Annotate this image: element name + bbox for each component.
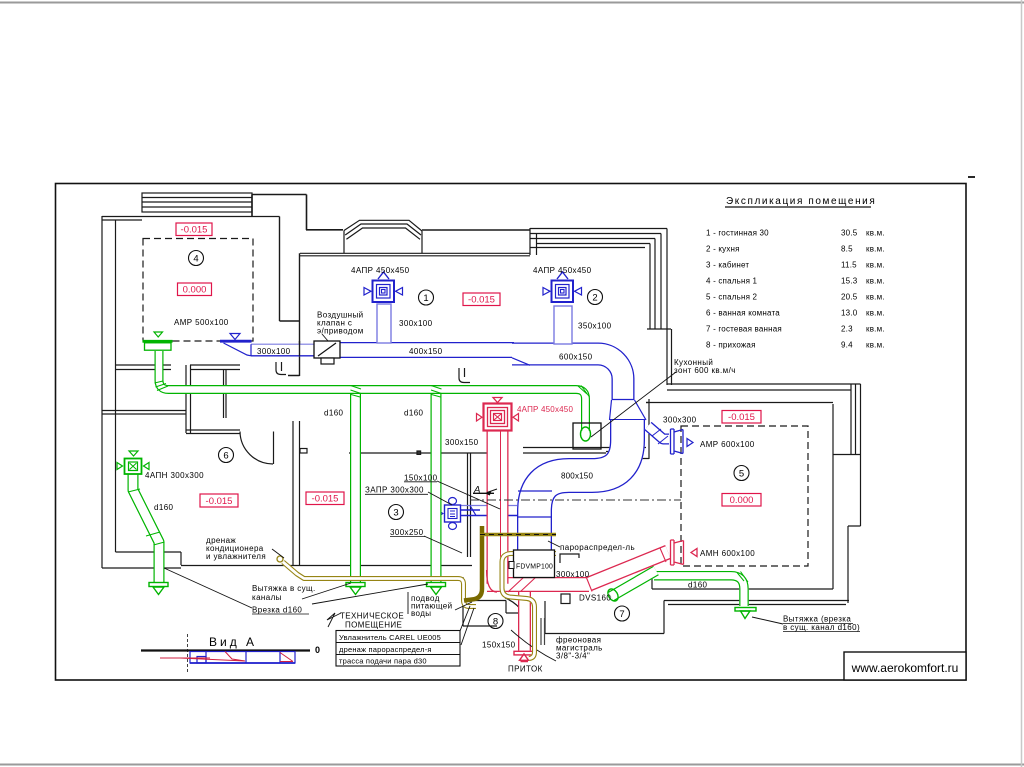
ZAPR grille symbol xyxy=(437,498,461,530)
steam distributor bar xyxy=(480,533,556,537)
diffuser 2 xyxy=(543,272,582,302)
svg-text:4АПН 300х300: 4АПН 300х300 xyxy=(145,471,204,480)
red diffuser 4APR xyxy=(477,398,519,431)
slide bottom border line xyxy=(0,764,1024,766)
branch to AMP room5 xyxy=(648,426,669,439)
svg-text:зонт 600 кв.м/ч: зонт 600 кв.м/ч xyxy=(674,366,736,375)
elbow gores room4 xyxy=(155,381,169,391)
end symbol branch1 xyxy=(346,583,365,595)
room3 left wall with door xyxy=(293,421,300,565)
tick mark top-right xyxy=(968,176,975,178)
olive hook circle xyxy=(277,556,283,562)
svg-text:АМН 600х100: АМН 600х100 xyxy=(700,549,755,558)
green branch 1 xyxy=(350,394,361,583)
svg-text:-0.015: -0.015 xyxy=(181,225,208,236)
main duct 400x150 xyxy=(340,342,514,358)
svg-text:0: 0 xyxy=(315,645,320,655)
svg-text:Экспликация помещения: Экспликация помещения xyxy=(726,196,876,207)
svg-text:3: 3 xyxy=(393,508,398,519)
green branch 2 xyxy=(431,394,442,583)
svg-text:АМР 600х100: АМР 600х100 xyxy=(700,440,755,449)
svg-text:4 - спальня 1: 4 - спальня 1 xyxy=(706,277,758,286)
blue grille AMP 500x100 room4 xyxy=(220,340,252,343)
valve leader xyxy=(322,334,328,341)
svg-text:кв.м.: кв.м. xyxy=(866,245,885,254)
svg-text:4: 4 xyxy=(193,254,198,265)
transition from grille xyxy=(224,343,252,356)
svg-text:4АПР 450х450: 4АПР 450х450 xyxy=(351,266,410,275)
FDVMP100 box xyxy=(514,550,555,578)
svg-text:300х100: 300х100 xyxy=(399,319,433,328)
svg-text:7: 7 xyxy=(619,609,624,620)
svg-text:-0.015: -0.015 xyxy=(728,412,755,423)
svg-text:300х100: 300х100 xyxy=(257,347,291,356)
svg-text:350х100: 350х100 xyxy=(578,322,612,331)
tech room zigzag xyxy=(327,613,341,627)
parorasp leader xyxy=(548,541,560,547)
svg-text:и увлажнителя: и увлажнителя xyxy=(206,552,266,561)
svg-text:15.3: 15.3 xyxy=(841,277,858,286)
title block www box xyxy=(844,652,966,680)
diffuser 2 drop duct xyxy=(554,306,572,344)
svg-text:4АПР 450х450: 4АПР 450х450 xyxy=(517,405,573,414)
svg-text:воды: воды xyxy=(411,609,431,618)
svg-text:150х150: 150х150 xyxy=(482,641,516,650)
garage hatch band xyxy=(142,193,252,212)
kitchen/hall middle walls xyxy=(606,399,649,459)
svg-text:кв.м.: кв.м. xyxy=(866,293,885,302)
inner seam xyxy=(500,431,502,560)
svg-text:d160: d160 xyxy=(154,503,174,512)
right wall kitchen xyxy=(667,329,672,385)
svg-text:300х300: 300х300 xyxy=(663,416,697,425)
room 5 dashed rect xyxy=(681,426,808,566)
svg-text:кв.м.: кв.м. xyxy=(866,309,885,318)
lower-left walls xyxy=(102,411,186,415)
drawing frame xyxy=(56,184,967,681)
podvod vody bracket xyxy=(408,592,472,614)
svg-text:ПОМЕЩЕНИЕ: ПОМЕЩЕНИЕ xyxy=(345,621,402,630)
svg-text:5: 5 xyxy=(739,469,744,480)
transition hatches on horizontal duct xyxy=(508,577,536,592)
svg-text:-0.015: -0.015 xyxy=(312,494,339,505)
room5 d160 run xyxy=(654,576,744,606)
red diagonal duct to AMN xyxy=(589,552,668,584)
air valve box xyxy=(314,341,340,358)
right outer wall band xyxy=(851,384,861,526)
svg-text:2: 2 xyxy=(592,293,597,304)
svg-text:-0.015: -0.015 xyxy=(206,496,233,507)
svg-text:3/8"-3/4": 3/8"-3/4" xyxy=(556,652,590,661)
freon pipes xyxy=(541,618,545,645)
thick steam hose xyxy=(464,526,482,601)
right wing top walls xyxy=(646,384,861,403)
svg-text:ЗАПР 300х300: ЗАПР 300х300 xyxy=(365,486,424,495)
branch gores xyxy=(652,429,668,444)
branch takeoff gores xyxy=(351,386,362,398)
svg-text:кв.м.: кв.м. xyxy=(866,277,885,286)
svg-text:парораспредел-ль: парораспредел-ль xyxy=(560,543,635,552)
pritok end symbol xyxy=(514,651,534,661)
svg-text:300х250: 300х250 xyxy=(390,528,424,537)
transition diag 400->600 xyxy=(512,358,530,366)
svg-text:6: 6 xyxy=(223,451,228,462)
svg-text:ПРИТОК: ПРИТОК xyxy=(508,665,543,674)
svg-text:Вид А: Вид А xyxy=(209,635,257,649)
svg-text:d160: d160 xyxy=(324,409,344,418)
section line A-A dash-dot xyxy=(470,499,681,501)
svg-text:1: 1 xyxy=(423,293,428,304)
svg-text:DVS160: DVS160 xyxy=(579,594,611,603)
steam pipe to distributor xyxy=(502,554,556,659)
svg-text:30.5: 30.5 xyxy=(841,229,858,238)
svg-text:каналы: каналы xyxy=(252,593,282,602)
slide right border line xyxy=(1021,0,1023,767)
svg-text:d160: d160 xyxy=(688,581,708,590)
door arc room8 xyxy=(505,598,530,637)
zapr label leader xyxy=(428,492,452,505)
joint ticks on vertical 800 duct xyxy=(518,491,552,517)
drain hook symbols xyxy=(276,362,286,375)
DVS160 diagonal xyxy=(611,571,656,597)
svg-text:0.000: 0.000 xyxy=(730,495,754,506)
thin partition in bath xyxy=(224,369,227,418)
leaders vytyazhka xyxy=(302,583,428,604)
wall over duct xyxy=(299,341,301,356)
svg-text:FDVMP100: FDVMP100 xyxy=(516,562,553,571)
svg-text:дренаж парораспредел-я: дренаж парораспредел-я xyxy=(339,645,432,654)
room6 drain duct xyxy=(133,474,159,583)
svg-text:4АПР 450х450: 4АПР 450х450 xyxy=(533,266,592,275)
top wall left block xyxy=(102,217,280,221)
4APN diffuser room6 xyxy=(117,451,149,474)
end symbol branch2 xyxy=(427,583,446,595)
duct 300x100 from AMP room4 xyxy=(251,345,340,357)
svg-text:www.aerokomfort.ru: www.aerokomfort.ru xyxy=(851,661,959,675)
svg-text:8: 8 xyxy=(493,617,498,628)
kitchen top window band xyxy=(530,229,667,248)
room1 top wall xyxy=(300,253,530,256)
svg-text:0.000: 0.000 xyxy=(183,285,207,296)
left outer wall xyxy=(101,216,103,568)
big S duct 800x150 xyxy=(535,419,628,552)
svg-text:Вытяжка в сущ.: Вытяжка в сущ. xyxy=(252,584,316,593)
svg-text:в сущ. канал d160): в сущ. канал d160) xyxy=(783,623,860,632)
humidifier leaders xyxy=(456,606,474,645)
AMN grille room5 xyxy=(671,540,698,565)
room4 green drop + main run + kitchen drop xyxy=(159,351,586,431)
svg-text:э/приводом: э/приводом xyxy=(317,327,364,336)
right window band verticals xyxy=(647,229,671,330)
diffuser 1 xyxy=(364,272,403,302)
kitchen hood leader xyxy=(591,372,676,437)
drenazh leader xyxy=(272,549,284,558)
svg-text:Увлажнитель CAREL UE005: Увлажнитель CAREL UE005 xyxy=(339,633,441,642)
thin section partition xyxy=(495,455,497,584)
svg-text:Врезка d160: Врезка d160 xyxy=(252,606,302,615)
svg-text:d160: d160 xyxy=(404,409,424,418)
svg-text:300х150: 300х150 xyxy=(445,438,479,447)
svg-text:300х100: 300х100 xyxy=(556,570,590,579)
canopy ticks xyxy=(344,231,422,254)
svg-text:трасса подачи пара d30: трасса подачи пара d30 xyxy=(339,657,427,666)
canopy bay trapezoids xyxy=(344,220,422,231)
pritok drop duct xyxy=(518,592,531,651)
svg-text:АМР 500х100: АМР 500х100 xyxy=(174,318,229,327)
svg-text:5 - спальня 2: 5 - спальня 2 xyxy=(706,293,758,302)
AMP room5 grille xyxy=(671,429,684,454)
ZAPR branch duct 150x100 xyxy=(461,505,517,507)
svg-text:13.0: 13.0 xyxy=(841,309,858,318)
triangle marker xyxy=(230,334,240,340)
svg-text:150х100: 150х100 xyxy=(404,474,438,483)
svg-text:8.5: 8.5 xyxy=(841,245,853,254)
svg-text:800х150: 800х150 xyxy=(561,472,593,481)
hall/tech wall vertical xyxy=(468,453,471,557)
svg-text:600х150: 600х150 xyxy=(559,353,593,362)
svg-text:кв.м.: кв.м. xyxy=(866,341,885,350)
svg-text:кв.м.: кв.м. xyxy=(866,325,885,334)
wall between room4 and hall xyxy=(280,217,300,377)
tech room bottom area xyxy=(463,577,497,626)
long drain line xyxy=(283,562,476,607)
svg-text:2.3: 2.3 xyxy=(841,325,853,334)
150x100 leader xyxy=(437,481,500,509)
room6 duct joint ticks xyxy=(128,489,165,545)
svg-text:кв.м.: кв.м. xyxy=(866,261,885,270)
svg-text:8 - прихожая: 8 - прихожая xyxy=(706,341,756,350)
tech room lower outline xyxy=(545,601,664,634)
svg-text:-0.015: -0.015 xyxy=(468,295,495,306)
elbow gores room5 xyxy=(737,572,748,583)
svg-text:6 - ванная комната: 6 - ванная комната xyxy=(706,309,780,318)
room5 bottom walls xyxy=(652,589,849,605)
svg-text:1 - гостинная 30: 1 - гостинная 30 xyxy=(706,229,769,238)
room5 inner right wall xyxy=(832,404,834,589)
humidifier table xyxy=(336,631,460,667)
vytyazhka right leader xyxy=(752,617,783,624)
green AMP grille room4 xyxy=(143,332,173,350)
room7 fixtures xyxy=(560,554,579,563)
elbow gores kitchen xyxy=(578,386,590,398)
room6 end symbol xyxy=(149,583,168,595)
svg-text:11.5: 11.5 xyxy=(841,261,857,270)
kitchen hood box xyxy=(573,423,601,449)
main duct 600x150 + elbow down xyxy=(512,354,623,400)
svg-text:20.5: 20.5 xyxy=(841,293,858,302)
room5 end symbol xyxy=(735,608,756,619)
red drop duct from 4APR xyxy=(487,431,589,592)
left inner wall xyxy=(115,220,117,552)
svg-text:ТЕХНИЧЕСКОЕ: ТЕХНИЧЕСКОЕ xyxy=(340,612,404,621)
slide top border line xyxy=(0,2,1024,4)
svg-text:кв.м.: кв.м. xyxy=(866,229,885,238)
leader to vrezka text xyxy=(164,568,252,608)
bath walls room6 xyxy=(115,365,240,370)
svg-text:2 - кухня: 2 - кухня xyxy=(706,245,740,254)
svg-text:9.4: 9.4 xyxy=(841,341,853,350)
300x250 leader xyxy=(424,536,462,553)
room 4 dashed rect xyxy=(143,239,253,342)
diffuser 1 drop duct xyxy=(377,304,391,343)
svg-text:3 - кабинет: 3 - кабинет xyxy=(706,261,749,270)
porch top stub xyxy=(252,195,343,231)
center horizontal wall xyxy=(349,448,646,454)
transition widening at y399-420 xyxy=(610,400,647,421)
door arc room3 xyxy=(240,432,274,465)
svg-text:7 - гостевая ванная: 7 - гостевая ванная xyxy=(706,325,782,334)
svg-text:400х150: 400х150 xyxy=(409,347,443,356)
bottom-left outline xyxy=(102,552,472,568)
